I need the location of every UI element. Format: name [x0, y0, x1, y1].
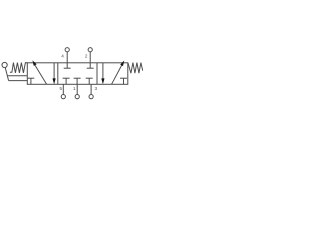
box3 vertical flow arrow: [101, 63, 104, 84]
spring right: [128, 63, 143, 74]
port 3 circle: [89, 95, 93, 99]
svg-text:3: 3: [95, 86, 98, 91]
port 5 stem: [62, 84, 64, 94]
divider between box 2 and box 3: [96, 63, 98, 85]
lever bracket top line: [7, 75, 27, 77]
box2 blocked port T above port 3: [86, 78, 93, 84]
svg-text:1: 1: [73, 86, 76, 91]
box3 blocked port T: [120, 78, 127, 84]
box2 blocked port T above port 1: [74, 78, 81, 84]
box1 vertical flow arrow 2-3: [53, 63, 56, 84]
spring left: [10, 63, 27, 73]
lever knob circle: [2, 62, 7, 67]
box1 diagonal flow arrow 1-4: [32, 60, 46, 84]
port 4 circle: [65, 48, 69, 52]
valve body outer rectangle: [27, 63, 128, 85]
port 2 circle: [88, 48, 92, 52]
svg-text:4: 4: [61, 54, 64, 59]
box2 blocked port T under port 4: [64, 63, 71, 68]
divider between box 1 and box 2: [57, 63, 59, 85]
lever bracket bottom line: [9, 80, 28, 82]
port 2 stem: [89, 52, 91, 63]
box3 diagonal flow arrow: [112, 61, 125, 85]
svg-text:2: 2: [85, 53, 88, 58]
port 5 circle: [61, 95, 65, 99]
port 1 stem: [76, 84, 78, 94]
box2 blocked port T under port 2: [87, 63, 94, 68]
port 1 circle: [75, 95, 79, 99]
port 3 stem: [90, 84, 92, 94]
lever stem: [5, 68, 8, 81]
port 4 stem: [66, 52, 68, 63]
svg-text:5: 5: [60, 86, 63, 91]
box2 blocked port T above port 5: [63, 78, 70, 84]
box1 blocked port T (port 5 side): [28, 78, 35, 84]
